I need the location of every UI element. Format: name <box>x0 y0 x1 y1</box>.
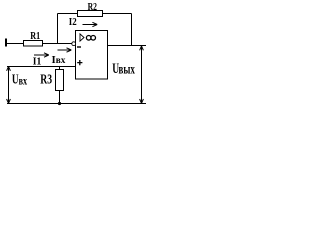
junction dot R3/common <box>58 102 61 105</box>
resistor R3 <box>56 70 64 91</box>
svg-text:I1: I1 <box>33 56 42 68</box>
resistor R1 <box>24 41 43 47</box>
op-amp plus input sign <box>77 60 82 65</box>
current arrow Iin <box>58 48 72 52</box>
op-amp infinity symbol <box>86 36 95 41</box>
current arrow I2 <box>83 22 98 26</box>
wire feedback top right <box>103 13 132 15</box>
svg-text:Uвых: Uвых <box>112 60 135 77</box>
svg-text:Iвх: Iвх <box>52 54 66 66</box>
bottom common wire <box>7 103 146 105</box>
svg-text:R2: R2 <box>88 1 98 12</box>
input terminal <box>5 39 7 47</box>
wire R1 to node A <box>43 43 73 45</box>
svg-text:Uвх: Uвх <box>12 72 28 88</box>
op-amp gain triangle <box>80 34 84 41</box>
voltage arrow Uвх (double headed) <box>7 67 11 104</box>
wire feedback down to output <box>131 14 133 46</box>
wire noninverting input <box>7 66 76 68</box>
svg-text:I2: I2 <box>69 16 77 28</box>
wire input to R1 <box>7 43 24 45</box>
wire node A up (feedback branch) <box>57 14 59 44</box>
wire op-amp output <box>108 45 147 47</box>
op-amp minus input sign <box>77 46 81 47</box>
svg-text:R3: R3 <box>40 71 52 87</box>
inversion circle at op-amp input <box>72 42 76 46</box>
svg-text:R1: R1 <box>30 30 40 41</box>
wire feedback top left <box>58 13 78 15</box>
current arrow I1 <box>34 53 49 57</box>
wire R3 bottom stub <box>59 91 61 104</box>
op-amp U1 body <box>76 31 108 80</box>
voltage arrow Uвых (double headed) <box>140 46 144 103</box>
resistor R2 <box>78 11 103 17</box>
wire R3 top stub <box>59 67 61 70</box>
